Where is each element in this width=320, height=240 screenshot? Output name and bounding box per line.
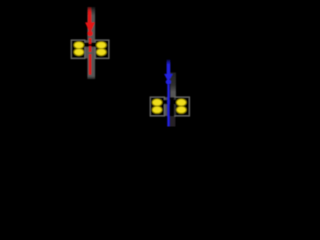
right unit: blue solid trajectory line — [167, 85, 169, 127]
right unit: left orbital box — [150, 97, 164, 116]
right unit: orbital lobe top-right — [176, 99, 186, 106]
left unit: red dashed trajectory line — [89, 38, 91, 56]
left unit: orbital lobe bottom-right — [96, 49, 106, 56]
left unit: black bond channel through axis and inner borders — [83, 43, 97, 47]
right unit: orbital lobe top-left — [152, 99, 162, 106]
right unit: black bond channel through axis and inner borders — [163, 100, 176, 104]
left unit: orbital lobe top-right — [96, 42, 106, 49]
right unit: orbital lobe bottom-right — [176, 106, 186, 113]
right unit: blue particle dot — [166, 79, 171, 84]
left unit: red spin arrow head — [85, 22, 95, 31]
right unit: orbital lobe bottom-left — [152, 106, 162, 113]
left unit: left orbital box — [71, 40, 85, 59]
right unit: blue spin arrow head — [164, 74, 173, 81]
right unit: axis bar lower dim segment right of blue line — [170, 116, 176, 127]
left unit: orbital lobe top-left — [74, 42, 84, 49]
right unit: right orbital box — [175, 97, 190, 116]
left unit: right orbital box — [95, 40, 109, 59]
left unit: red solid trajectory tail — [89, 56, 91, 75]
left unit: red spin arrow shaft — [88, 7, 92, 23]
left unit: gray filler between boxes — [86, 40, 95, 58]
left unit: red particle dot — [87, 31, 92, 36]
right unit: gray strip left of blue line at box rows — [163, 97, 167, 116]
right unit: darken inner border of right box — [174, 98, 176, 116]
right unit: blue spin arrow shaft — [167, 60, 171, 74]
left unit: orbital lobe bottom-left — [74, 49, 84, 56]
left unit: molecular axis bar — [87, 7, 95, 79]
right unit: axis bar upper segment right of blue line — [170, 73, 176, 98]
